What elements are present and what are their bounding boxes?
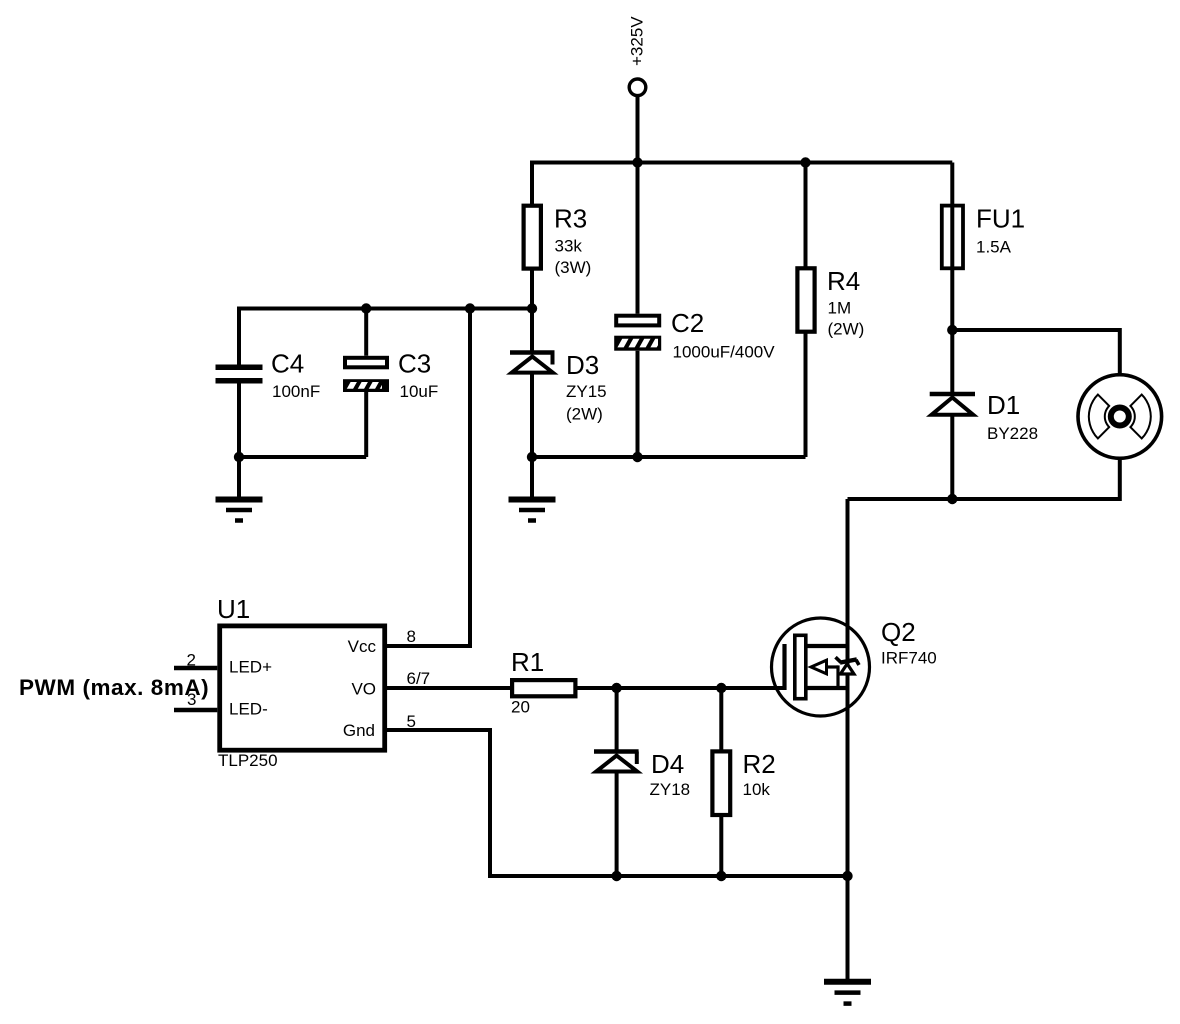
wire D1 bottom stem [950,415,954,499]
wire C2 branch [636,163,640,314]
op-amp U1 (TLP250 box) [187,594,431,770]
Q2 drain bar [806,644,848,648]
node +325V terminal [629,79,646,96]
capacitor C2 (electrolytic) [614,308,775,362]
svg-text:ZY18: ZY18 [650,780,691,799]
svg-text:6/7: 6/7 [407,669,431,688]
wire C3 top stem [364,309,368,356]
Q2 substrate arrow [811,660,827,674]
wire D1 branch [950,330,954,394]
wire D3 bottom stem to ground [530,373,534,497]
wire R2 branch [719,688,723,876]
resistor R4 [797,266,864,339]
wire U1 VO to Q2 gate [387,686,785,690]
resistor R2 [712,749,775,815]
wire lamp bottom [848,458,1120,500]
svg-text:Q2: Q2 [881,617,916,647]
wire D4 bottom stem [615,772,619,877]
Q2 channel bar [795,635,806,698]
svg-text:C3: C3 [398,349,431,379]
ground (Q2 source) [824,982,871,1004]
svg-text:33k: 33k [555,237,583,256]
svg-text:Gnd: Gnd [343,721,375,740]
diode D4 (zener ZY18) [594,749,690,799]
node C3 top junction [361,303,371,313]
capacitor C3 (electrolytic) [343,349,438,402]
svg-text:R1: R1 [511,647,544,677]
node R2 bottom bus junction [716,871,726,881]
transistor Q2 (IRF740 MOSFET) [772,617,937,716]
diode D1 (BY228) [930,390,1038,443]
wire C2 bottom stem [636,351,640,457]
wire U1 pin 2 stub [174,666,217,671]
svg-text:D1: D1 [987,390,1020,420]
wire FU1 junction to lamp top [952,330,1120,376]
svg-text:FU1: FU1 [976,204,1025,234]
svg-text:U1: U1 [217,594,250,624]
wire Q2 source to ground [846,876,850,979]
svg-text:10uF: 10uF [400,382,439,401]
wire U1 pin 3 stub [174,708,217,713]
svg-text:R3: R3 [554,204,587,234]
svg-text:IRF740: IRF740 [881,649,937,668]
wire C4-C3 bus [239,307,532,311]
svg-text:R4: R4 [827,266,860,296]
node D1 bottom junction [947,494,957,504]
svg-text:D4: D4 [651,749,684,779]
svg-text:ZY15: ZY15 [566,382,607,401]
node gate/D4 junction [611,683,621,693]
svg-text:+325V: +325V [628,16,647,66]
svg-text:LED-: LED- [229,700,268,719]
wire FU1 branch [950,163,954,331]
capacitor C4 [216,349,321,402]
wire C4 top stem [237,307,241,365]
svg-text:PWM (max. 8mA): PWM (max. 8mA) [19,675,209,700]
wire top bus [532,161,952,165]
svg-text:BY228: BY228 [987,424,1038,443]
node Vcc riser junction [465,303,475,313]
wire C4 bottom stem to ground [237,384,241,497]
node gate/R2 junction [716,683,726,693]
Q2 substrate link [827,665,838,668]
resistor R3 [524,204,592,278]
node D3 bottom junction [527,452,537,462]
Q2 source bar [806,686,848,690]
svg-text:R2: R2 [743,749,776,779]
svg-text:C4: C4 [271,349,304,379]
svg-text:100nF: 100nF [272,382,320,401]
wire R3-D3 branch [530,161,534,353]
wire C4-C3 bottom bus [239,455,366,459]
wire +325V stem [636,96,640,163]
node bus/R4 junction [800,157,810,167]
node R3/D3 junction [527,303,537,313]
svg-text:20: 20 [511,698,530,717]
node FU1/D1/lamp junction [947,325,957,335]
svg-text:10k: 10k [743,780,771,799]
lamp LA1 [1078,375,1162,459]
svg-text:Vcc: Vcc [348,637,377,656]
wire U1 Gnd to bottom bus [387,730,848,876]
fuse FU1 [942,204,1025,271]
svg-text:(2W): (2W) [828,320,865,339]
node bus/+325V junction [632,157,642,167]
wire Q2 drain-source line [846,499,850,876]
svg-text:C2: C2 [671,308,704,338]
wire R4 branch [804,163,808,458]
svg-text:8: 8 [407,627,416,646]
svg-text:1.5A: 1.5A [976,238,1012,257]
Q2 gate bar [782,644,786,690]
Q2 body diode [840,664,854,674]
svg-text:TLP250: TLP250 [218,751,278,770]
node source/ground junction [842,871,852,881]
wire U1 Vcc pin 8 to bus [387,309,470,647]
wire D4 branch [615,688,619,752]
svg-text:VO: VO [351,680,376,699]
node D4 bottom bus junction [611,871,621,881]
ground (D3) [509,500,556,521]
svg-text:(2W): (2W) [566,405,603,424]
svg-text:(3W): (3W) [555,258,592,277]
diode D3 (zener ZY15) [510,350,607,424]
wire D3-C2-R4 bottom bus [532,455,806,459]
svg-text:2: 2 [187,651,196,670]
node C2 bottom junction [632,452,642,462]
svg-text:1M: 1M [828,299,852,318]
ground (C4) [216,500,263,521]
svg-text:D3: D3 [566,350,599,380]
node C4 bottom junction [234,452,244,462]
resistor R1 [511,647,575,717]
svg-text:1000uF/400V: 1000uF/400V [673,343,776,362]
svg-text:LED+: LED+ [229,658,272,677]
svg-text:5: 5 [407,712,416,731]
wire C3 bottom stem [364,392,368,457]
